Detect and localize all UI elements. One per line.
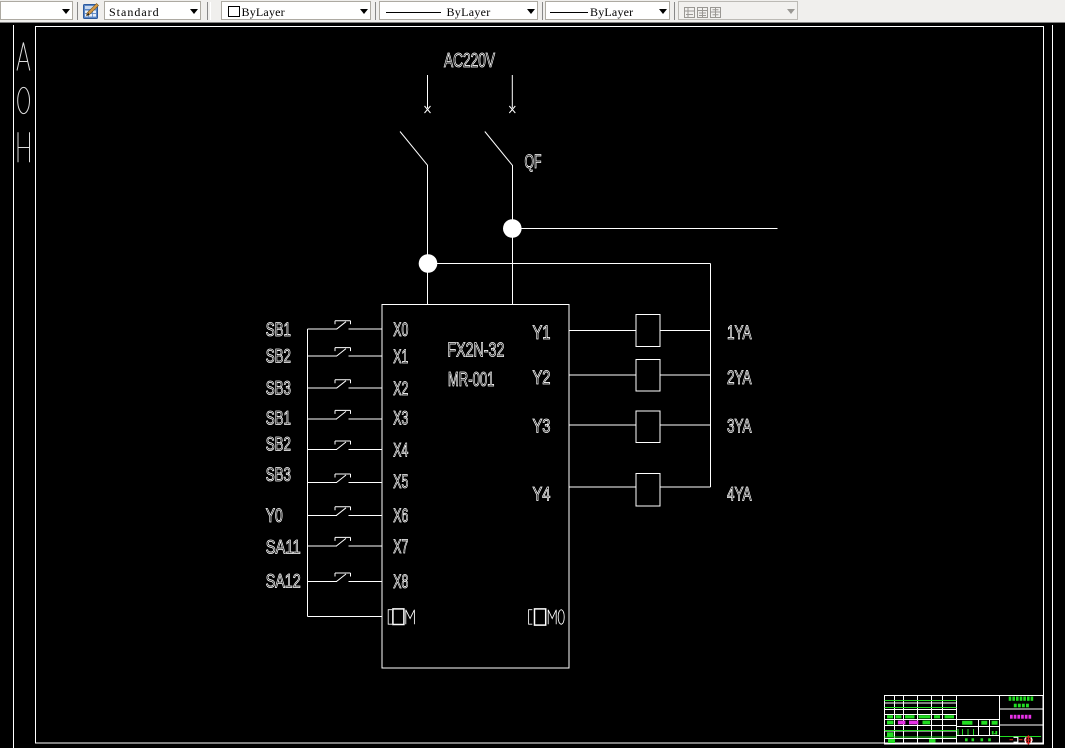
svg-text:SB2: SB2 [266,434,291,455]
svg-text:4YA: 4YA [727,484,752,505]
svg-text:SB3: SB3 [266,465,291,486]
svg-text:FX2N-32: FX2N-32 [447,340,504,362]
svg-text:SB1: SB1 [266,320,291,341]
svg-text:3YA: 3YA [727,417,752,438]
svg-text:Y4: Y4 [533,484,551,505]
svg-text:X8: X8 [393,572,408,593]
svg-text:Y0: Y0 [266,506,283,527]
svg-text:SB1: SB1 [266,408,291,429]
svg-text:SB2: SB2 [266,346,291,367]
svg-text:SA11: SA11 [266,537,301,558]
svg-text:X4: X4 [393,440,408,461]
svg-text:X2: X2 [393,379,408,400]
svg-text:1YA: 1YA [727,323,752,344]
svg-text:Y1: Y1 [533,323,551,344]
svg-text:X0: X0 [393,320,408,341]
svg-text:X5: X5 [393,472,408,493]
svg-text:X1: X1 [393,347,408,368]
svg-text:SA12: SA12 [266,571,301,592]
svg-text:AC220V: AC220V [444,50,495,72]
svg-text:X3: X3 [393,409,408,430]
svg-text:2YA: 2YA [727,368,752,389]
svg-text:X6: X6 [393,506,408,527]
svg-text:X7: X7 [393,537,408,558]
svg-text:SB3: SB3 [266,378,291,399]
svg-text:Y3: Y3 [533,417,551,438]
svg-text:Y2: Y2 [533,368,551,389]
svg-text:QF: QF [525,152,542,173]
svg-text:MR-001: MR-001 [448,369,495,391]
